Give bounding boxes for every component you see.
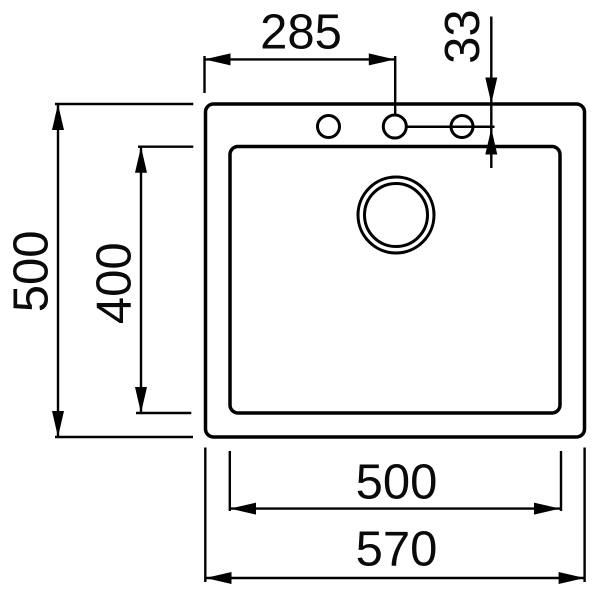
svg-text:285: 285: [260, 6, 342, 60]
svg-text:500: 500: [4, 231, 58, 313]
svg-text:400: 400: [87, 242, 141, 324]
svg-text:33: 33: [436, 9, 490, 64]
svg-text:500: 500: [356, 456, 438, 510]
svg-text:570: 570: [356, 523, 438, 577]
